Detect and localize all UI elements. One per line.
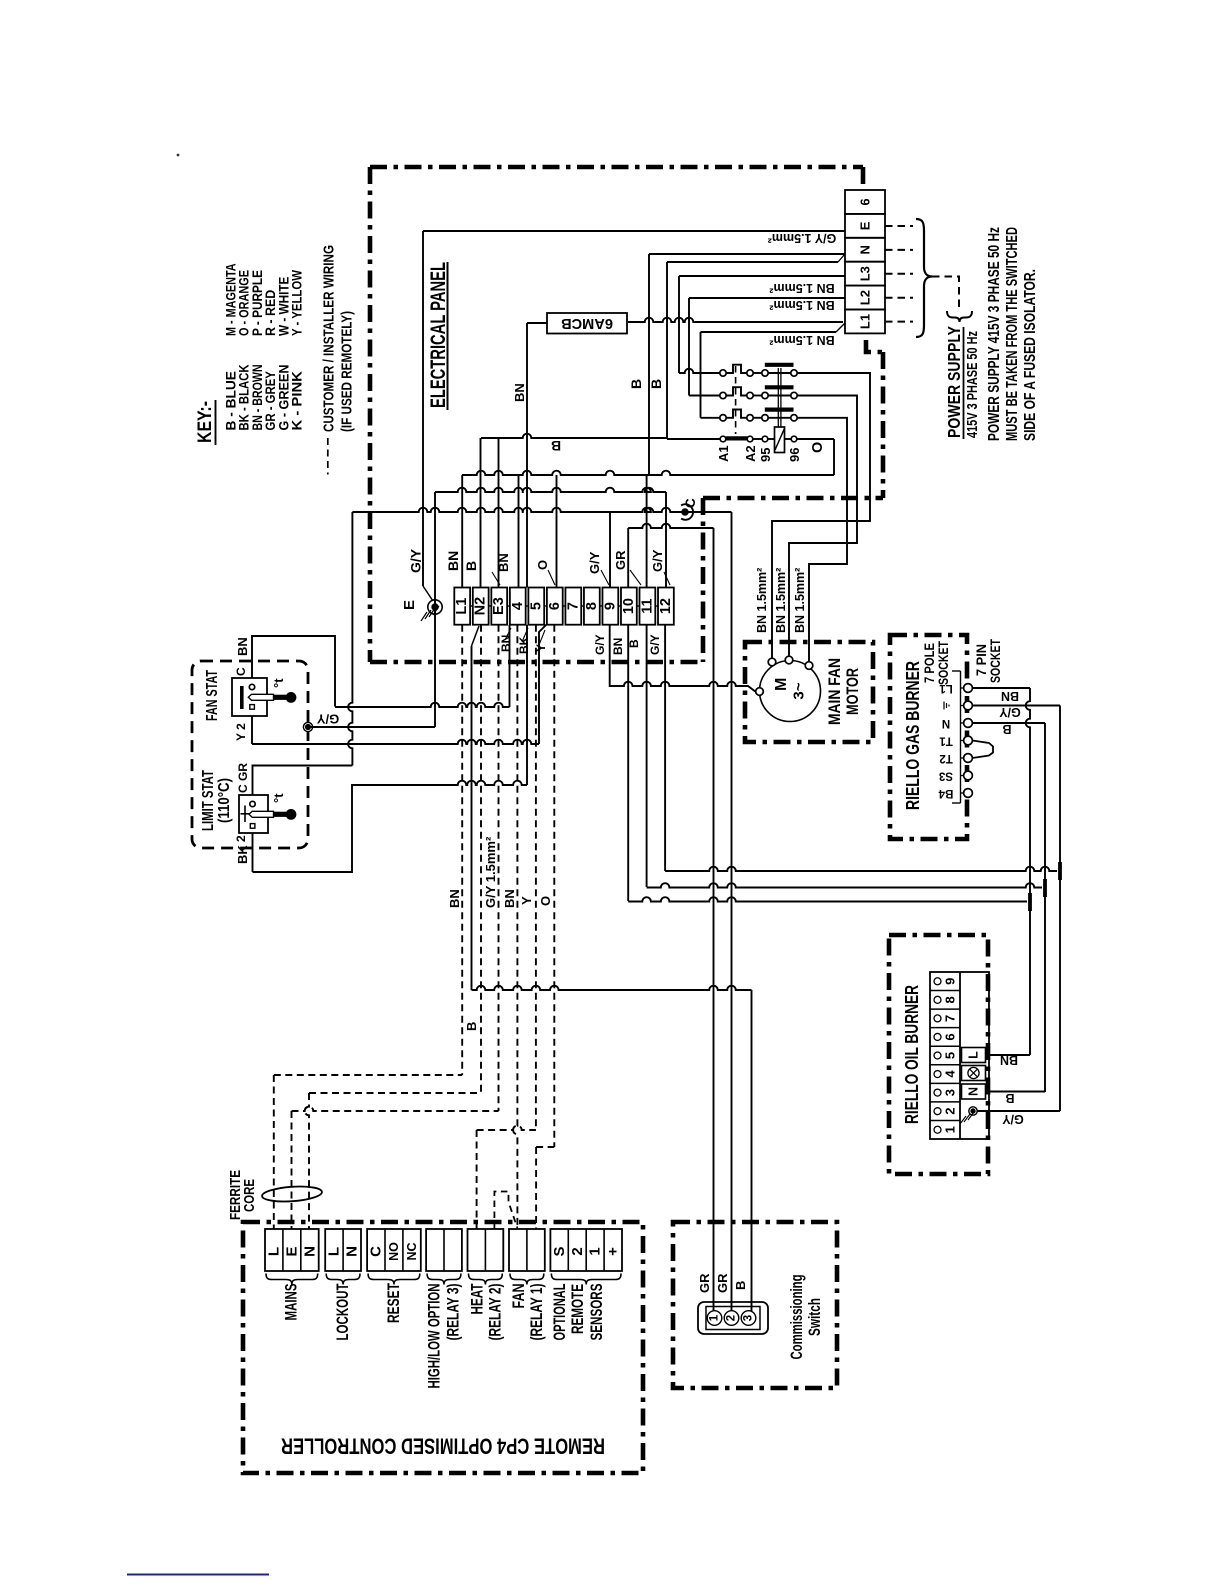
- wire L1 branch horizontal: [701, 331, 837, 333]
- svg-text:N: N: [967, 1087, 981, 1096]
- wire limit stat BK down: [252, 833, 254, 872]
- svg-text:MUST BE TAKEN FROM THE SWITCHE: MUST BE TAKEN FROM THE SWITCHED: [1004, 227, 1021, 441]
- svg-text:B: B: [627, 639, 641, 648]
- gas T1 T2 jumper: [972, 741, 993, 759]
- motor terminal 1: [768, 658, 776, 666]
- svg-text:K - PINK: K - PINK: [290, 370, 306, 430]
- blue footer rule: [127, 1574, 269, 1576]
- wire N2 solid drop: [471, 646, 473, 990]
- svg-text:G/Y: G/Y: [999, 705, 1021, 719]
- terminal strip cell 11: [640, 588, 656, 625]
- terminal strip link 10: [637, 605, 640, 607]
- node C junction dot: [682, 509, 689, 516]
- wire L3 drop to contactor: [678, 276, 680, 373]
- svg-text:6: 6: [943, 1033, 958, 1040]
- terminal strip link E3: [507, 605, 510, 607]
- junction bar B bus: [1043, 879, 1047, 897]
- svg-text:(RELAY 2): (RELAY 2): [487, 1284, 505, 1341]
- controller dashed box: [243, 1222, 643, 1473]
- oil burner terminal 7: [930, 1008, 960, 1010]
- svg-text:CORE: CORE: [242, 1179, 258, 1212]
- svg-text:A2: A2: [743, 445, 758, 462]
- svg-text:MAINS: MAINS: [283, 1284, 301, 1321]
- svg-text:2: 2: [569, 1247, 586, 1255]
- dashed supply lead L2: [885, 297, 913, 299]
- oil burner L box: [962, 1048, 986, 1063]
- junction bar BN bus: [1028, 893, 1032, 911]
- key dashed wire sample: [327, 438, 329, 475]
- svg-text:L: L: [265, 1247, 282, 1256]
- wire L2 horizontal: [689, 297, 845, 299]
- svg-text:BN: BN: [1001, 689, 1019, 703]
- oil burner lamp box: [962, 1066, 986, 1081]
- svg-text:96: 96: [787, 448, 802, 462]
- dashed supply lead L3: [885, 273, 913, 275]
- electrical panel border notch horizontal: [703, 496, 883, 501]
- junction bar GY bus: [1058, 862, 1062, 880]
- svg-text:N: N: [344, 1246, 361, 1257]
- commissioning connector inner: [706, 1307, 760, 1330]
- terminal strip link 8: [600, 605, 603, 607]
- contactor main contact pole 2: [689, 395, 720, 397]
- svg-text:3~: 3~: [791, 682, 808, 699]
- svg-text:BN: BN: [611, 638, 625, 655]
- wire drop 6 top: [556, 475, 558, 588]
- wire GR switch1: [713, 528, 715, 1311]
- wire N branch drop to coil: [666, 262, 668, 439]
- oil burner terminal divider: [959, 972, 961, 1139]
- svg-text:E3: E3: [491, 597, 507, 615]
- controller group HIGH/LOW: [426, 1229, 462, 1271]
- svg-text:N2: N2: [473, 597, 489, 616]
- earth stud hatching: [421, 612, 427, 621]
- terminal strip cell 8: [584, 588, 600, 625]
- svg-text:BN 1.5mm²: BN 1.5mm²: [769, 281, 834, 295]
- svg-text:OPTIONAL: OPTIONAL: [551, 1284, 569, 1341]
- dashed supply lead N: [885, 249, 913, 251]
- wire N horizontal: [649, 253, 845, 255]
- svg-text:FAN STAT: FAN STAT: [204, 670, 221, 721]
- power supply brace: [916, 219, 932, 337]
- svg-text:REMOTE: REMOTE: [569, 1284, 587, 1334]
- contactor main contact pole 3: [701, 417, 720, 419]
- svg-text:(RELAY 3): (RELAY 3): [444, 1284, 462, 1341]
- svg-text:S3: S3: [939, 770, 953, 782]
- wire oil L BN: [986, 1054, 1031, 1056]
- svg-text:B: B: [1005, 1091, 1014, 1105]
- wire bus y475: [462, 471, 834, 475]
- svg-text:5: 5: [528, 602, 544, 610]
- terminal strip link 9: [618, 605, 621, 607]
- terminal strip link 5: [544, 605, 547, 607]
- oil burner terminal 4: [930, 1064, 960, 1066]
- svg-text:O: O: [538, 896, 553, 906]
- svg-text:3: 3: [743, 1315, 755, 1321]
- svg-text:B: B: [733, 1281, 748, 1290]
- wire gas E GY: [972, 705, 1060, 707]
- svg-text:11: 11: [639, 598, 655, 613]
- wire E to earth stud: [423, 230, 845, 232]
- electrical panel border right jog: [866, 340, 883, 352]
- svg-text:RIELLO OIL BURNER: RIELLO OIL BURNER: [902, 985, 922, 1124]
- svg-text:1: 1: [709, 1314, 721, 1321]
- dashed supply lead L1: [885, 321, 913, 323]
- svg-text:NC: NC: [405, 1242, 419, 1260]
- svg-text:G/Y: G/Y: [648, 634, 662, 655]
- svg-text:2: 2: [943, 1108, 958, 1115]
- svg-text:RESET: RESET: [385, 1283, 403, 1323]
- svg-text:7: 7: [943, 1015, 958, 1022]
- dashed wire E3-GY to mains E: [498, 625, 500, 1111]
- svg-text:5: 5: [943, 1052, 958, 1059]
- wire L1 cell diagonal: [836, 323, 845, 332]
- svg-text:SIDE OF A FUSED ISOLATOR.: SIDE OF A FUSED ISOLATOR.: [1022, 269, 1039, 441]
- wire limit stat C GR: [253, 766, 353, 796]
- power terminal 6: [845, 190, 885, 214]
- wire drop E3 top: [498, 438, 500, 588]
- svg-text:B: B: [1002, 722, 1011, 736]
- svg-text:6: 6: [858, 198, 873, 205]
- svg-text:BN: BN: [502, 889, 517, 908]
- wire 6AMCB to L1: [628, 318, 843, 322]
- svg-text:L3: L3: [858, 266, 873, 281]
- svg-text:M: M: [773, 678, 790, 691]
- svg-text:T1: T1: [939, 735, 953, 747]
- svg-text:G/Y: G/Y: [1002, 1112, 1024, 1126]
- wire phase2 contactor to motor: [789, 396, 857, 658]
- overload linkage double line: [777, 368, 779, 427]
- wire B switch3 drop: [751, 990, 753, 1311]
- wire drop 11 top: [646, 475, 648, 588]
- wire 96 drop to bus: [833, 439, 835, 475]
- wire gas L1 BN: [972, 687, 1030, 689]
- oil burner terminal 2: [930, 1101, 960, 1103]
- node C hook: [681, 504, 693, 520]
- wire oil earth GY: [977, 1110, 1060, 1112]
- wire B vertical x1045: [1044, 723, 1046, 888]
- wire L1 drop to contactor: [700, 332, 702, 418]
- svg-text:Switch: Switch: [806, 1298, 824, 1336]
- svg-text:MAIN FAN: MAIN FAN: [825, 658, 844, 725]
- svg-text:S: S: [551, 1246, 568, 1256]
- wire N drop to bus: [648, 254, 650, 475]
- dashed wire L1-BN to mains L: [461, 625, 463, 1075]
- dashed link brace to label: [932, 277, 959, 310]
- overload trip element box: [775, 427, 785, 453]
- terminal strip link 4: [526, 605, 529, 607]
- svg-text:CUSTOMER / INSTALLER WIRING: CUSTOMER / INSTALLER WIRING: [322, 245, 338, 432]
- svg-text:C: C: [683, 498, 698, 508]
- svg-text:N: N: [942, 717, 950, 729]
- gas socket pin B4: [961, 792, 964, 794]
- svg-text:FAN: FAN: [510, 1284, 528, 1309]
- svg-text:10: 10: [621, 598, 637, 614]
- svg-text:HIGH/LOW OPTION: HIGH/LOW OPTION: [426, 1284, 444, 1389]
- svg-text:A1: A1: [716, 445, 731, 462]
- svg-text:RIELLO GAS BURNER: RIELLO GAS BURNER: [903, 661, 923, 810]
- wire bus G/Y y492: [435, 488, 666, 492]
- svg-text:L: L: [326, 1247, 343, 1256]
- svg-text:HEAT: HEAT: [469, 1284, 487, 1315]
- svg-text:G/Y 1.5mm²: G/Y 1.5mm²: [483, 836, 498, 908]
- gas socket pin N: [961, 722, 964, 724]
- wire drop 12 top: [665, 492, 667, 588]
- wire below 10 to BN bus: [627, 625, 629, 901]
- fan stat thermostat symbol: [240, 686, 244, 709]
- dashed supply lead E: [885, 225, 913, 227]
- svg-text:B: B: [463, 561, 479, 571]
- svg-text:POWER SUPPLY: POWER SUPPLY: [944, 326, 964, 438]
- svg-text:L1: L1: [939, 682, 953, 694]
- main fan motor dashed box: [745, 642, 873, 742]
- power terminal L2: [845, 286, 885, 310]
- terminal strip link 11: [655, 605, 658, 607]
- svg-text:C GR: C GR: [236, 763, 250, 793]
- electrical panel border notch vertical: [701, 498, 706, 662]
- commissioning switch dashed box: [673, 1222, 837, 1388]
- wire drop L1 top: [461, 475, 463, 588]
- svg-text:G/Y 1.5mm²: G/Y 1.5mm²: [768, 231, 837, 245]
- svg-text:8: 8: [943, 996, 958, 1003]
- svg-text:C: C: [234, 667, 248, 676]
- terminal strip link N2: [489, 605, 492, 607]
- svg-text:B: B: [551, 438, 561, 454]
- svg-text:G/Y: G/Y: [593, 634, 607, 655]
- electrical panel border left: [368, 167, 373, 662]
- svg-text:7: 7: [565, 602, 581, 610]
- svg-text:B4: B4: [938, 787, 953, 799]
- svg-text:L1: L1: [454, 598, 470, 615]
- svg-text:8: 8: [584, 602, 600, 610]
- gas socket pin T2: [961, 757, 964, 759]
- svg-text:BN: BN: [1000, 1053, 1018, 1067]
- stray dot top-left: [177, 154, 180, 157]
- svg-text:°t: °t: [271, 678, 286, 688]
- dashed jumper heat-fan: [494, 1192, 517, 1230]
- wire N cell diagonal: [838, 254, 845, 262]
- svg-text:G/Y: G/Y: [408, 548, 424, 573]
- svg-text:L: L: [967, 1051, 981, 1059]
- svg-text:+: +: [605, 1247, 622, 1256]
- svg-text:E: E: [401, 600, 418, 610]
- gas burner socket rail: [960, 671, 962, 803]
- svg-text:O: O: [810, 442, 826, 453]
- svg-text:BN 1.5mm²: BN 1.5mm²: [774, 568, 788, 633]
- svg-text:BN 1.5mm²: BN 1.5mm²: [769, 333, 834, 347]
- wire GY vertical x1060 lower: [1059, 871, 1061, 1111]
- wire phase3 contactor to motor: [797, 418, 847, 661]
- svg-text:BN 1.5mm²: BN 1.5mm²: [769, 298, 834, 312]
- dashed wire 5-Y to heat relay: [535, 625, 537, 1130]
- terminal strip cell 9: [602, 588, 618, 625]
- svg-text:BK: BK: [517, 636, 531, 654]
- wire earth drop x435: [434, 492, 436, 727]
- fan/limit stat dashed enclosure: [192, 661, 308, 848]
- stats chassis earth dot: [303, 722, 312, 731]
- oil burner terminal 3: [930, 1082, 960, 1084]
- wire L2 drop to contactor: [688, 298, 690, 396]
- terminal strip cell 4: [510, 588, 526, 625]
- wire L3 horizontal: [679, 275, 845, 277]
- controller group FAN: [509, 1229, 545, 1271]
- svg-text:KEY:-: KEY:-: [195, 401, 216, 443]
- svg-text:BN 1.5mm²: BN 1.5mm²: [755, 568, 769, 633]
- svg-text:BK: BK: [235, 845, 250, 864]
- ferrite core ellipse: [262, 1185, 323, 1204]
- svg-text:BN: BN: [512, 383, 527, 402]
- small brace at power supply label: [947, 311, 972, 322]
- oil burner terminal 5: [930, 1045, 960, 1047]
- gas socket pin L1: [961, 687, 964, 689]
- electrical panel border right top stub: [861, 167, 866, 184]
- svg-text:ELECTRICAL PANEL: ELECTRICAL PANEL: [426, 262, 450, 408]
- wire fan stat Y down: [251, 716, 253, 744]
- dashed wire N2-B to mains N: [480, 625, 482, 1093]
- wire drop 10 top: [627, 528, 629, 588]
- svg-text:SENSORS: SENSORS: [588, 1284, 606, 1341]
- svg-text:BN: BN: [496, 553, 511, 572]
- terminal strip cell 10: [621, 588, 637, 625]
- wire bus GR y528: [628, 524, 713, 528]
- svg-text:GR: GR: [613, 550, 628, 570]
- wire below 12 to GY bus: [664, 625, 666, 871]
- svg-text:L1: L1: [858, 314, 873, 329]
- wire bus GR y512: [352, 508, 731, 512]
- svg-text:MOTOR: MOTOR: [843, 668, 862, 715]
- power terminal E: [845, 214, 885, 238]
- svg-text:POWER SUPPLY 415V 3 PHASE 50 H: POWER SUPPLY 415V 3 PHASE 50 Hz: [986, 227, 1003, 441]
- wire gas N B: [972, 722, 1045, 724]
- contactor coil row A1-A2 and overload 95-96: [667, 438, 720, 440]
- svg-text:GR: GR: [697, 1273, 712, 1293]
- earth stud diagonal: [423, 586, 433, 601]
- svg-text:1: 1: [943, 1126, 958, 1133]
- svg-text:2: 2: [234, 835, 248, 842]
- wire fan stat C: [252, 636, 335, 707]
- svg-text:G/Y: G/Y: [316, 712, 339, 727]
- svg-text:BN 1.5mm²: BN 1.5mm²: [793, 568, 807, 633]
- terminal strip cell 6: [547, 588, 563, 625]
- circuit breaker 6AMCB box: [547, 313, 627, 334]
- power terminal L3: [845, 262, 885, 286]
- svg-text:6AMCB: 6AMCB: [561, 315, 613, 332]
- svg-text:O: O: [535, 560, 550, 570]
- terminal strip link 6: [563, 605, 566, 607]
- controller group MAINS: [265, 1229, 319, 1271]
- fan stat box: [232, 678, 267, 716]
- motor terminal left: [756, 688, 764, 696]
- wire GR riser x352: [348, 512, 352, 766]
- motor circle: [760, 661, 821, 722]
- wire below 6 to fan stat Y: [539, 625, 546, 744]
- wire stats earth G/Y: [308, 726, 435, 728]
- wire 6AMCB drop to terminal 5: [526, 323, 528, 588]
- svg-text:BN: BN: [447, 889, 462, 908]
- svg-text:1: 1: [587, 1247, 604, 1255]
- wire drop 9 top: [609, 512, 611, 588]
- svg-text:6: 6: [547, 602, 563, 610]
- svg-text:L2: L2: [858, 290, 873, 305]
- limit stat thermostat symbol: [250, 801, 255, 806]
- svg-text:°t: °t: [271, 793, 286, 803]
- terminal strip link 7: [581, 605, 584, 607]
- controller group SENSORS: [550, 1229, 622, 1271]
- wire drop 4 top: [518, 475, 520, 588]
- commissioning terminal 3: [741, 1311, 756, 1326]
- wire bus B y438: [481, 434, 667, 438]
- gas socket pin S3: [961, 775, 964, 777]
- contactor main contact pole 1: [679, 369, 720, 373]
- svg-text:N: N: [858, 245, 873, 254]
- limit stat box: [239, 795, 268, 833]
- svg-text:(110°C): (110°C): [216, 778, 233, 823]
- dashed wire 6-O to fan relay: [553, 625, 555, 1147]
- svg-text:BN: BN: [235, 637, 250, 656]
- svg-text:9: 9: [943, 978, 958, 985]
- svg-text:3: 3: [943, 1089, 958, 1096]
- controller group RESET: [367, 1229, 421, 1271]
- svg-text:C: C: [368, 1246, 385, 1257]
- svg-text:Y 2: Y 2: [234, 723, 248, 741]
- wire below 5 to limit stat: [526, 625, 528, 785]
- svg-text:4: 4: [943, 1070, 958, 1078]
- svg-text:415V 3 PHASE 50 Hz: 415V 3 PHASE 50 Hz: [964, 331, 981, 438]
- oil burner N box: [962, 1084, 986, 1099]
- commissioning connector outer: [698, 1302, 768, 1334]
- svg-text:(IF USED REMOTELY): (IF USED REMOTELY): [340, 311, 356, 432]
- terminal strip link L1: [470, 605, 473, 607]
- wire bus G/Y y871: [665, 867, 1057, 871]
- terminal strip cell L1: [454, 588, 470, 625]
- wire oil N B: [986, 1091, 1046, 1093]
- dashed wire 4-BN to fan relay: [513, 625, 517, 1228]
- svg-text:BN: BN: [445, 551, 461, 571]
- svg-text:Y - YELLOW: Y - YELLOW: [290, 270, 306, 336]
- svg-text:9: 9: [602, 602, 618, 610]
- svg-text:LOCKOUT: LOCKOUT: [334, 1284, 352, 1341]
- svg-text:N: N: [301, 1246, 318, 1257]
- motor terminal 3: [805, 662, 813, 670]
- svg-text:B: B: [464, 1022, 479, 1031]
- wire bus BN y901: [628, 897, 1027, 901]
- terminal strip cell 5: [528, 588, 544, 625]
- svg-text:(RELAY 1): (RELAY 1): [528, 1284, 546, 1341]
- svg-text:REMOTE CP4 OPTIMISED CONTROLLE: REMOTE CP4 OPTIMISED CONTROLLER: [281, 1434, 605, 1459]
- svg-text:95: 95: [758, 448, 773, 462]
- svg-text:B: B: [648, 379, 664, 389]
- svg-text:SOCKET: SOCKET: [935, 641, 951, 685]
- svg-text:4: 4: [510, 602, 526, 610]
- wire B vertical x1045 lower: [1044, 888, 1046, 1092]
- oil burner terminal 8: [930, 990, 960, 992]
- svg-text:B: B: [628, 379, 644, 389]
- wire below 4 to fan stat C: [509, 625, 511, 707]
- commissioning terminal 1: [707, 1311, 722, 1326]
- gas socket pin T1: [961, 740, 964, 742]
- svg-text:Commissioning: Commissioning: [788, 1275, 806, 1360]
- wire 6AMCB left stub: [527, 322, 547, 324]
- controller group LOCKOUT: [325, 1229, 361, 1271]
- wire fan stat C to terminal 4: [335, 703, 510, 707]
- svg-text:12: 12: [658, 598, 674, 614]
- wire N2 solid drop diagonal: [472, 626, 480, 646]
- riello gas burner dashed box: [890, 635, 967, 839]
- wire below 9 motor earth: [610, 625, 756, 692]
- wire bus B y887: [647, 883, 1042, 887]
- wire GY vertical x1060: [1059, 706, 1061, 872]
- gas socket pin E: [961, 705, 964, 707]
- motor terminal 2: [785, 656, 793, 664]
